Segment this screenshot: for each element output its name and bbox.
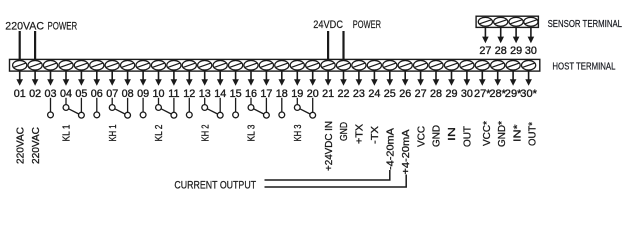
terminal screw 04 — [59, 60, 73, 70]
terminal screw 22 — [336, 60, 350, 70]
svg-text:GND: GND — [339, 122, 350, 141]
svg-text:30*: 30* — [520, 88, 537, 100]
arrow from sensor terminal 28 — [497, 28, 504, 43]
switch blade KH3 — [300, 109, 310, 114]
arrow from host terminal 14 — [217, 71, 224, 86]
switch blade KL3 — [254, 109, 264, 114]
arrow from sensor terminal 30 — [528, 28, 535, 43]
terminal screw 08 — [121, 60, 135, 70]
open wire stub terminal 09 — [140, 98, 146, 118]
terminal screw 10 — [151, 60, 165, 70]
arrow from host terminal 30* — [525, 71, 532, 86]
terminal screw 11 — [167, 60, 181, 70]
svg-text:26: 26 — [399, 88, 411, 100]
svg-text:220VAC: 220VAC — [5, 20, 44, 32]
arrow from host terminal 09 — [140, 71, 147, 86]
switch blade KL2 — [161, 109, 171, 114]
sensor terminal screw 27 — [478, 17, 492, 26]
arrow from host terminal 24 — [371, 71, 378, 86]
arrow from host terminal 20 — [309, 71, 316, 86]
terminal screw 29 — [444, 60, 458, 70]
sensor terminal screw 29 — [509, 17, 523, 26]
switch blade KH1 — [115, 109, 125, 114]
open wire stub terminal 18 — [279, 98, 285, 118]
wire 220VAC N to terminal 02 — [34, 31, 36, 60]
arrow from host terminal 29* — [510, 71, 517, 86]
wire current output + to terminal 26 — [265, 175, 407, 188]
arrow from host terminal 11 — [171, 71, 178, 86]
terminal screw 12 — [182, 60, 196, 70]
svg-text:IN: IN — [447, 127, 458, 141]
host terminal block body — [10, 59, 540, 71]
arrow from host terminal 03 — [47, 71, 54, 86]
arrow from host terminal 07 — [109, 71, 116, 86]
svg-text:24: 24 — [368, 88, 380, 100]
svg-text:220VAC: 220VAC — [15, 127, 26, 164]
switch contact KL2 right stub (terminal 11) — [171, 98, 177, 118]
terminal screw 29* — [506, 60, 520, 70]
switch contact KH1 left stub (terminal 07) — [109, 98, 115, 111]
arrow from host terminal 06 — [94, 71, 101, 86]
arrow from host terminal 04 — [63, 71, 70, 86]
svg-text:KL 2: KL 2 — [154, 124, 165, 141]
terminal screw 13 — [198, 60, 212, 70]
terminal screw 15 — [229, 60, 243, 70]
switch contact KH1 right stub (terminal 08) — [125, 98, 131, 118]
arrow from host terminal 02 — [32, 71, 39, 86]
svg-text:29: 29 — [445, 88, 457, 100]
svg-text:30: 30 — [461, 88, 473, 100]
svg-text:24VDC: 24VDC — [313, 19, 343, 31]
svg-text:01: 01 — [14, 88, 26, 100]
wire current output - to terminal 25 — [265, 170, 390, 180]
switch contact KL2 left stub (terminal 10) — [156, 98, 162, 111]
arrow from host terminal 23 — [356, 71, 363, 86]
arrow from host terminal 16 — [248, 71, 255, 86]
arrow from host terminal 29 — [448, 71, 455, 86]
svg-text:+4-20mA: +4-20mA — [401, 129, 412, 174]
svg-text:23: 23 — [353, 88, 365, 100]
arrow from host terminal 12 — [186, 71, 193, 86]
arrow from host terminal 10 — [155, 71, 162, 86]
svg-text:27: 27 — [415, 88, 427, 100]
switch contact KH3 right stub (terminal 20) — [310, 98, 316, 118]
terminal screw 19 — [290, 60, 304, 70]
svg-text:HOST TERMINAL: HOST TERMINAL — [552, 61, 615, 72]
svg-text:21: 21 — [322, 88, 334, 100]
terminal screw 09 — [136, 60, 150, 70]
terminal screw 26 — [398, 60, 412, 70]
switch contact KL1 right stub (terminal 05) — [79, 98, 85, 118]
svg-text:OUT*: OUT* — [528, 122, 539, 146]
terminal screw 02 — [28, 60, 42, 70]
terminal screw 30 — [460, 60, 474, 70]
terminal screw 01 — [13, 60, 27, 70]
terminal screw 30* — [522, 60, 536, 70]
arrow from host terminal 08 — [124, 71, 131, 86]
open wire stub terminal 06 — [94, 98, 100, 118]
sensor terminal screw 28 — [494, 17, 508, 26]
svg-text:25: 25 — [384, 88, 396, 100]
open wire stub terminal 03 — [48, 98, 54, 118]
sensor terminal block body — [476, 16, 538, 27]
sensor terminal screw 30 — [524, 17, 538, 26]
svg-text:22: 22 — [337, 88, 349, 100]
arrow from host terminal 22 — [340, 71, 347, 86]
svg-text:GND: GND — [432, 125, 443, 147]
arrow from host terminal 26 — [402, 71, 409, 86]
svg-text:KL 1: KL 1 — [62, 124, 73, 141]
svg-text:GND*: GND* — [497, 121, 508, 147]
terminal screw 16 — [244, 60, 258, 70]
terminal screw 23 — [352, 60, 366, 70]
svg-text:220VAC: 220VAC — [31, 127, 42, 164]
svg-text:-TX: -TX — [370, 126, 381, 144]
wire 24VDC + to terminal 21 — [327, 31, 329, 60]
svg-text:OUT: OUT — [463, 126, 474, 147]
svg-text:28: 28 — [495, 45, 507, 57]
terminal screw 27* — [475, 60, 489, 70]
terminal screw 28* — [491, 60, 505, 70]
svg-text:+24VDC IN: +24VDC IN — [324, 121, 335, 171]
arrow from host terminal 13 — [201, 71, 208, 86]
switch contact KH2 left stub (terminal 13) — [202, 98, 208, 111]
arrow from host terminal 27 — [417, 71, 424, 86]
svg-text:KH 1: KH 1 — [108, 124, 119, 141]
arrow from host terminal 19 — [294, 71, 301, 86]
svg-text:CURRENT OUTPUT: CURRENT OUTPUT — [174, 180, 256, 192]
svg-text:POWER: POWER — [48, 20, 78, 32]
arrow from host terminal 28 — [433, 71, 440, 86]
terminal screw 25 — [383, 60, 397, 70]
arrow from host terminal 21 — [325, 71, 332, 86]
arrow from host terminal 15 — [232, 71, 239, 86]
terminal screw 14 — [213, 60, 227, 70]
svg-text:30: 30 — [525, 45, 537, 57]
arrow from host terminal 01 — [16, 71, 23, 86]
switch contact KL3 right stub (terminal 17) — [264, 98, 270, 118]
terminal screw 07 — [105, 60, 119, 70]
switch blade KL1 — [69, 109, 79, 114]
svg-text:-4-20mA: -4-20mA — [386, 128, 397, 170]
switch blade KH2 — [207, 109, 217, 114]
svg-text:SENSOR TERMINAL: SENSOR TERMINAL — [548, 19, 623, 30]
open wire stub terminal 15 — [233, 98, 239, 118]
switch contact KL3 left stub (terminal 16) — [248, 98, 254, 111]
arrow from host terminal 27* — [479, 71, 486, 86]
terminal screw 20 — [306, 60, 320, 70]
svg-text:IN*: IN* — [513, 124, 524, 142]
arrow from sensor terminal 29 — [513, 28, 520, 43]
terminal screw 24 — [367, 60, 381, 70]
terminal screw 17 — [259, 60, 273, 70]
terminal screw 21 — [321, 60, 335, 70]
svg-text:KH 3: KH 3 — [293, 124, 304, 141]
terminal screw 03 — [43, 60, 57, 70]
svg-text:VCC*: VCC* — [482, 121, 493, 146]
terminal screw 06 — [90, 60, 104, 70]
arrow from host terminal 28* — [494, 71, 501, 86]
arrow from sensor terminal 27 — [482, 28, 489, 43]
arrow from host terminal 05 — [78, 71, 85, 86]
svg-text:+TX: +TX — [355, 124, 366, 144]
svg-text:KH 2: KH 2 — [200, 124, 211, 141]
arrow from host terminal 25 — [387, 71, 394, 86]
arrow from host terminal 17 — [263, 71, 270, 86]
terminal screw 05 — [74, 60, 88, 70]
svg-text:KL 3: KL 3 — [247, 124, 258, 141]
svg-text:POWER: POWER — [353, 19, 381, 31]
terminal screw 18 — [275, 60, 289, 70]
switch contact KH3 left stub (terminal 19) — [294, 98, 300, 111]
switch contact KH2 right stub (terminal 14) — [217, 98, 223, 118]
arrow from host terminal 18 — [279, 71, 286, 86]
wire 220VAC L to terminal 01 — [19, 31, 21, 60]
svg-text:VCC: VCC — [416, 126, 427, 147]
open wire stub terminal 12 — [186, 98, 192, 118]
wire 24VDC - to terminal 22 — [342, 31, 344, 60]
svg-text:02: 02 — [29, 88, 41, 100]
svg-text:28: 28 — [430, 88, 442, 100]
arrow from host terminal 30 — [464, 71, 471, 86]
terminal screw 28 — [429, 60, 443, 70]
svg-text:29: 29 — [510, 45, 522, 57]
terminal screw 27 — [414, 60, 428, 70]
svg-text:27: 27 — [479, 45, 491, 57]
switch contact KL1 left stub (terminal 04) — [63, 98, 69, 111]
